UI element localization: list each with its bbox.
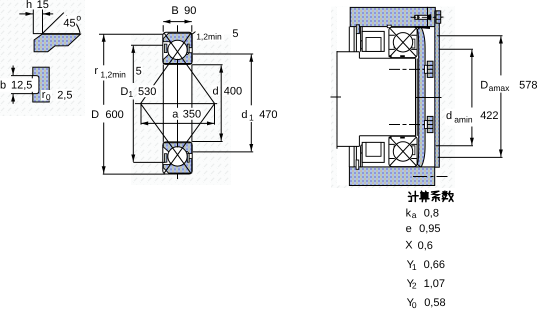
race edge marks [389, 55, 405, 57]
groove top line [11, 75, 33, 77]
svg-text:D: D [91, 109, 99, 121]
svg-text:5: 5 [232, 28, 238, 40]
contact line 1 [164, 33, 214, 103]
bore surface line right [191, 64, 193, 141]
svg-text:b: b [0, 80, 6, 92]
h dimension arrow right [43, 13, 53, 15]
svg-text:12,5: 12,5 [11, 80, 32, 92]
svg-text:0,58: 0,58 [424, 297, 445, 309]
ball [168, 40, 187, 59]
groove bottom line [11, 93, 33, 95]
flange centerline [416, 97, 442, 99]
label 1,2min top [195, 31, 224, 41]
d extension top [192, 64, 222, 66]
extension line left [32, 9, 34, 34]
black wedge under block [413, 26, 430, 29]
svg-text:0,8: 0,8 [424, 207, 439, 219]
contact cross [390, 28, 416, 56]
svg-text:amin: amin [454, 115, 473, 125]
damin extension bottom [436, 145, 473, 147]
svg-text:B: B [171, 5, 178, 17]
label B 90 [170, 4, 198, 16]
svg-text:578: 578 [519, 79, 537, 91]
svg-text:o: o [76, 12, 81, 22]
glyph xi [432, 191, 440, 201]
label D 600 [105, 106, 124, 122]
stud nut lower [425, 116, 434, 132]
svg-text:530: 530 [138, 86, 156, 98]
label h 15 [25, 0, 50, 10]
B extension left [162, 25, 164, 32]
label damin 422 [445, 109, 474, 126]
cap screw shank [415, 15, 430, 19]
bearing section bottom (arrangement, mirrored) [389, 136, 418, 166]
housing outer wall [435, 11, 440, 167]
hatched panel right [331, 7, 455, 189]
screw collar [430, 14, 432, 20]
LEFT DETAIL 1: outer-ring chamfer detail [19, 0, 81, 52]
svg-text:1,07: 1,07 [424, 278, 445, 290]
leader 1,2min [191, 31, 196, 35]
svg-text:e: e [406, 223, 412, 235]
cage pocket left [164, 44, 167, 53]
MIDDLE DRAWING: bearing cross-section [90, 4, 278, 179]
B dimension line [163, 21, 192, 23]
b dimension arrow top [12, 66, 14, 76]
groove notch [32, 76, 39, 94]
contact line 3 [141, 104, 191, 174]
svg-text:D: D [120, 86, 128, 98]
housing curved flange [417, 27, 425, 167]
svg-text:0,95: 0,95 [419, 223, 440, 235]
svg-text:D: D [480, 79, 488, 91]
svg-text:1: 1 [128, 89, 133, 99]
svg-text:470: 470 [259, 109, 277, 121]
ball [393, 33, 412, 52]
housing axis dash-dot [413, 176, 448, 178]
Damax extension bottom [438, 156, 503, 158]
thread ticks [417, 15, 419, 19]
axis tick above [177, 25, 179, 32]
svg-text:k: k [406, 207, 412, 219]
extension line right [42, 9, 44, 35]
glyph shu [442, 191, 453, 201]
svg-text:1,2min: 1,2min [196, 32, 222, 42]
housing cover segment [428, 7, 436, 26]
cage pocket right [187, 44, 189, 53]
svg-text:0,66: 0,66 [424, 259, 445, 271]
angle arc [66, 16, 80, 34]
bolt slot bottom [356, 160, 359, 169]
housing top block [350, 7, 427, 26]
hatched panel middle [131, 34, 231, 185]
svg-text:h: h [26, 0, 32, 11]
header glyphs (计算系数) drawn as strokes [408, 191, 453, 202]
d1 extension bottom [193, 151, 253, 153]
svg-text:90: 90 [184, 5, 196, 17]
shaft step bottom [358, 136, 360, 147]
spacer inner bottom [366, 142, 381, 156]
svg-text:2: 2 [412, 281, 417, 291]
D extension bottom [103, 173, 166, 175]
housing bottom bar [349, 167, 434, 186]
axis tick below [177, 174, 179, 179]
stud nut upper [425, 61, 434, 77]
shaft seat top [359, 57, 415, 59]
groove ring body [33, 67, 49, 102]
screw axis tick [441, 16, 444, 18]
label a 350 [168, 108, 202, 120]
svg-text:r: r [94, 65, 98, 77]
damin dimension line [471, 50, 473, 108]
D extension top [99, 33, 163, 35]
inner ring split line [177, 59, 179, 64]
TABLE: calculation factors [405, 191, 453, 310]
spacer inner top [366, 38, 381, 52]
spacer sleeve bottom [362, 142, 384, 162]
shaft bottom surface [337, 145, 359, 147]
svg-text:X: X [405, 240, 413, 252]
interior white backing [337, 7, 440, 186]
bore surface line left [162, 64, 164, 141]
label r0 2,5 [41, 90, 52, 101]
svg-text:0,6: 0,6 [418, 240, 433, 252]
h dimension arrow left [19, 13, 33, 15]
inner ring lines [389, 48, 416, 50]
glyph ji [408, 191, 418, 201]
label 5 left [135, 65, 143, 76]
spacer sleeve top [362, 31, 384, 51]
RIGHT DRAWING: mounted bearing arrangement [331, 7, 537, 186]
axis line vertical [177, 64, 179, 141]
d1 extension top [193, 53, 253, 55]
sleeve line left [415, 59, 417, 136]
inner ring [163, 53, 191, 64]
labyrinth lines bottom [348, 146, 350, 167]
hatched panel left [0, 0, 85, 116]
shaft top surface [337, 51, 359, 53]
svg-text:d: d [241, 109, 247, 121]
svg-text:45: 45 [63, 17, 75, 29]
label Damax 578 [479, 78, 506, 93]
top bearing section [163, 32, 192, 64]
B extension right [191, 25, 193, 32]
seal ring top [361, 41, 364, 50]
a extension right [214, 104, 216, 125]
svg-text:600: 600 [105, 109, 123, 121]
cover spigot [356, 25, 359, 34]
Damax extension top [437, 35, 503, 37]
svg-text:422: 422 [480, 110, 498, 122]
shaft axis tick [331, 96, 342, 98]
svg-text:a: a [412, 210, 417, 220]
svg-text:d: d [446, 110, 452, 122]
svg-text:350: 350 [183, 109, 201, 121]
D dimension line [103, 35, 105, 66]
svg-text:15: 15 [37, 0, 49, 11]
d extension bottom [192, 141, 222, 143]
label 45 deg [63, 16, 77, 28]
horizontal centerline [135, 103, 217, 105]
outer ring lines [389, 34, 416, 36]
contact line 4 [164, 104, 214, 174]
white notch in block bottom [387, 25, 391, 28]
svg-text:1,2min: 1,2min [100, 70, 126, 80]
label D1 530 [120, 85, 133, 98]
a extension left [140, 104, 142, 125]
45 deg chamfer construction line [43, 13, 64, 34]
shaft end line [336, 51, 338, 149]
sleeve line right [416, 59, 418, 136]
shaft step top [358, 52, 360, 59]
svg-text:a: a [172, 109, 179, 121]
damin extension top [439, 48, 473, 50]
LEFT DETAIL 2: snap-ring groove detail [0, 66, 73, 104]
svg-text:400: 400 [224, 86, 242, 98]
b dimension arrow bottom [12, 94, 14, 104]
D1 extension bottom [133, 161, 165, 163]
svg-text:5: 5 [136, 65, 142, 77]
Damax dimension line [500, 36, 502, 75]
glyph suan [420, 191, 429, 201]
ring cross-section body [34, 34, 80, 52]
bore area white [163, 64, 192, 141]
bearing section top (arrangement) [389, 27, 418, 57]
contact line 2 [141, 33, 191, 103]
svg-text:0: 0 [46, 92, 51, 102]
d1 dimension line [250, 55, 252, 106]
cage strips [394, 39, 397, 48]
label 5 top right [231, 27, 241, 39]
shaft seat bottom [359, 135, 415, 137]
stud axis lower [389, 124, 425, 126]
ring top face line [33, 33, 81, 35]
screw axis [411, 16, 444, 18]
d dimension line [220, 65, 222, 140]
cap screw tip [413, 16, 415, 19]
svg-text:2,5: 2,5 [57, 89, 72, 101]
screw head [436, 11, 441, 23]
labyrinth lines top [348, 27, 350, 52]
svg-text:1: 1 [412, 262, 417, 272]
svg-text:0: 0 [412, 300, 417, 310]
bottom bearing section (mirrored) [163, 142, 192, 174]
label d 400 [211, 85, 219, 96]
a dimension line [141, 122, 215, 124]
svg-text:amax: amax [489, 83, 511, 93]
label r 1,2min [94, 66, 130, 80]
seal ring bottom [361, 145, 364, 154]
D1 dimension line [132, 46, 134, 83]
svg-text:1: 1 [249, 112, 254, 122]
D1 extension top [131, 44, 163, 46]
outer ring [163, 33, 191, 48]
stud axis upper [389, 68, 425, 70]
label b 12,5 [0, 78, 34, 92]
section outline [163, 32, 192, 64]
svg-text:d: d [213, 86, 219, 98]
